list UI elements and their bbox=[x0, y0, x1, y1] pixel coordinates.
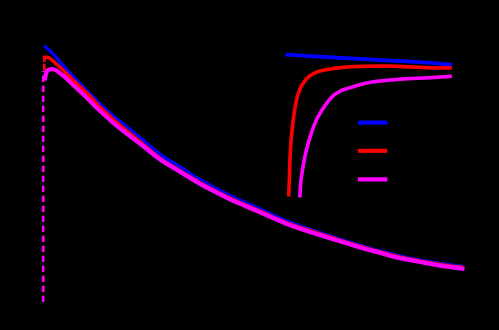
blue main curve bbox=[44, 46, 463, 267]
inset blue line bbox=[286, 55, 452, 65]
red dashed rise segment bbox=[43, 56, 46, 72]
inset red curve bbox=[289, 66, 452, 196]
red main curve bbox=[44, 57, 463, 267]
legend magenta line bbox=[358, 177, 387, 181]
magenta dashed vertical line bbox=[42, 71, 45, 302]
legend blue line bbox=[358, 120, 387, 124]
legend red line bbox=[358, 149, 387, 153]
magenta main curve bbox=[45, 69, 465, 269]
inset magenta curve bbox=[300, 76, 452, 197]
